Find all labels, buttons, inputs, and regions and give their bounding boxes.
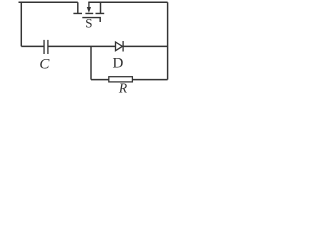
capacitor C plate right <box>47 40 49 54</box>
svg-text:C: C <box>39 57 50 73</box>
transistor Q1 drain lead <box>77 2 79 13</box>
capacitor C plate left <box>43 40 45 54</box>
diode D cathode bar <box>122 41 124 52</box>
transistor Q1 channel bar middle <box>85 12 93 14</box>
wire right vertical <box>167 2 169 79</box>
transistor Q1 gate plate and lead <box>82 18 100 22</box>
transistor Q1 source lead <box>100 2 102 13</box>
svg-text:D: D <box>113 55 124 71</box>
wire bottom-left segment <box>91 79 109 81</box>
svg-text:R: R <box>118 81 128 94</box>
wire left vertical <box>20 2 22 46</box>
transistor Q1 channel bar right <box>96 12 105 14</box>
wire top-left segment <box>19 1 78 3</box>
wire left-to-capacitor <box>21 45 44 47</box>
wire capacitor-to-diode <box>48 45 116 47</box>
wire diode-to-right <box>123 45 168 47</box>
wire bottom-right segment <box>132 79 167 81</box>
resistor R body <box>109 77 133 82</box>
transistor Q1 channel bar left <box>73 12 82 14</box>
node junction branch down <box>90 46 92 79</box>
wire top-right segment <box>88 1 167 3</box>
svg-text:S: S <box>85 15 92 30</box>
transistor Q1 substrate arrow <box>87 2 91 13</box>
diode D triangle <box>116 42 123 51</box>
